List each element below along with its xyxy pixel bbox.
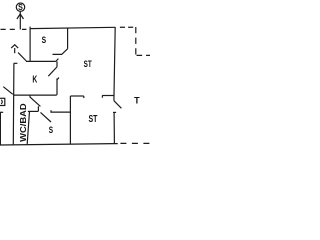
K door leaf (48, 67, 57, 76)
left edge tick (0, 111, 3, 113)
svg-text:T: T (134, 96, 140, 106)
door leaf bottom S (41, 112, 52, 122)
fixture box (0, 98, 5, 105)
divider wall center-bottom (69, 96, 71, 144)
S room door arc (53, 49, 68, 55)
north arrow shaft (19, 12, 21, 30)
right wall lower (113, 113, 115, 144)
wall stub right of opening (102, 95, 114, 97)
wall end tick (83, 96, 85, 98)
S room right wall (67, 28, 69, 49)
north indicator circle S (16, 3, 24, 11)
svg-text:S: S (49, 125, 53, 135)
left edge wall (0, 112, 1, 145)
K right wall lower (56, 78, 58, 95)
door jamb tick below wall (29, 95, 31, 98)
entry arrow head (11, 45, 18, 48)
left wall (hall/K west) (12, 63, 15, 144)
wall S bottom / K top (26, 60, 56, 62)
svg-text:S: S (18, 3, 23, 12)
svg-text:K: K (32, 75, 37, 86)
svg-text:ST: ST (84, 59, 92, 69)
K right wall jamb upper (56, 61, 58, 67)
right wall upper (114, 27, 115, 101)
svg-text:S: S (42, 35, 47, 45)
jamb tick wall resume (113, 111, 116, 113)
top wall (30, 27, 115, 28)
dashed site line left (1, 28, 27, 30)
K bottom wall (14, 94, 57, 96)
right door leaf (114, 101, 122, 109)
dashed neighbour horizontal lower (137, 54, 151, 56)
entry door leaf (18, 53, 26, 61)
dashed neighbour vertical (135, 27, 137, 56)
left wall tick (14, 62, 18, 64)
stub end tick (101, 95, 103, 97)
svg-text:ST: ST (89, 114, 98, 125)
svg-text:WC/BAD: WC/BAD (18, 103, 28, 142)
dashed bottom-right line (120, 142, 149, 144)
corridor bottom wall right part (51, 111, 70, 113)
fixture inner (1, 100, 2, 104)
outside door leaf (3, 87, 13, 95)
WC/BAD right wall (27, 111, 29, 144)
corridor bottom wall left part (28, 110, 39, 112)
corridor top wall (70, 95, 83, 97)
dashed neighbour top-right horizontal (120, 26, 133, 28)
jamb tick (56, 59, 59, 62)
entry arrow shaft (14, 48, 16, 53)
jamb tick lower (57, 78, 59, 81)
left wall upper (S room) (29, 27, 31, 62)
jamb tick (50, 110, 52, 113)
door leaf into hall (30, 97, 40, 106)
bottom wall (0, 144, 118, 145)
jamb up tick (37, 106, 39, 111)
north arrowhead (17, 14, 24, 19)
